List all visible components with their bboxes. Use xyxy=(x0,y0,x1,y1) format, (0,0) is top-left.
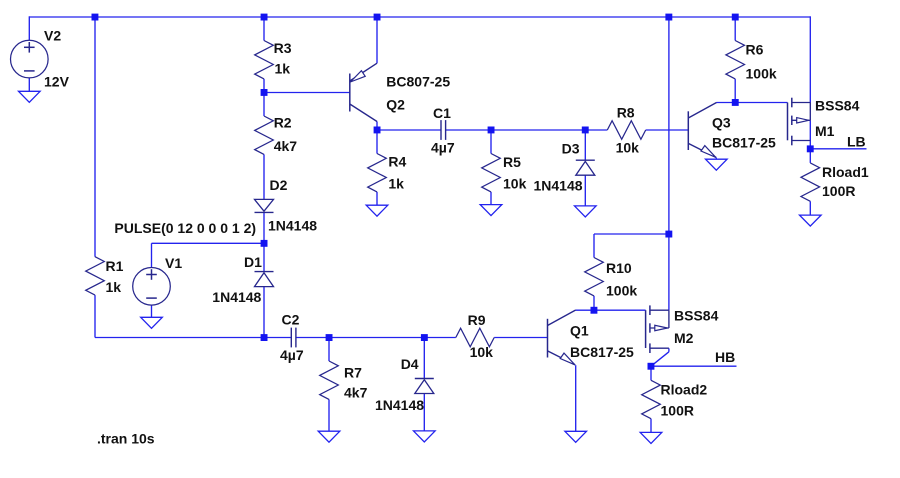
svg-text:4µ7: 4µ7 xyxy=(431,140,455,156)
svg-text:1k: 1k xyxy=(388,175,404,191)
svg-text:.tran 10s: .tran 10s xyxy=(97,431,155,447)
svg-text:D1: D1 xyxy=(244,254,262,270)
svg-text:4k7: 4k7 xyxy=(344,385,368,401)
svg-text:V1: V1 xyxy=(165,255,182,271)
svg-text:Rload1: Rload1 xyxy=(822,164,869,180)
svg-text:BSS84: BSS84 xyxy=(815,98,860,114)
svg-text:100k: 100k xyxy=(606,283,637,299)
svg-text:1N4148: 1N4148 xyxy=(534,178,583,194)
svg-text:R8: R8 xyxy=(617,105,635,121)
svg-text:12V: 12V xyxy=(44,74,70,90)
svg-text:1N4148: 1N4148 xyxy=(268,218,317,234)
svg-text:BC817-25: BC817-25 xyxy=(712,135,776,151)
svg-text:V2: V2 xyxy=(44,28,61,44)
svg-text:R5: R5 xyxy=(503,154,521,170)
svg-text:Q1: Q1 xyxy=(570,323,589,339)
svg-text:4µ7: 4µ7 xyxy=(280,347,304,363)
svg-text:1N4148: 1N4148 xyxy=(212,289,261,305)
svg-text:M1: M1 xyxy=(815,123,835,139)
svg-text:R10: R10 xyxy=(606,260,632,276)
svg-text:R6: R6 xyxy=(746,42,764,58)
svg-text:HB: HB xyxy=(715,349,735,365)
svg-text:R3: R3 xyxy=(274,40,292,56)
svg-text:BC807-25: BC807-25 xyxy=(386,74,450,90)
svg-text:Rload2: Rload2 xyxy=(661,382,708,398)
svg-text:BSS84: BSS84 xyxy=(674,308,719,324)
svg-text:Q2: Q2 xyxy=(386,97,405,113)
svg-text:100k: 100k xyxy=(746,66,777,82)
svg-text:1k: 1k xyxy=(106,279,122,295)
svg-text:1k: 1k xyxy=(275,61,291,77)
svg-text:C1: C1 xyxy=(433,105,451,121)
svg-text:R1: R1 xyxy=(106,258,124,274)
svg-text:R7: R7 xyxy=(344,365,362,381)
svg-text:R4: R4 xyxy=(388,154,406,170)
svg-text:C2: C2 xyxy=(282,312,300,328)
svg-text:LB: LB xyxy=(847,134,866,150)
svg-text:BC817-25: BC817-25 xyxy=(570,344,634,360)
svg-text:D4: D4 xyxy=(401,356,419,372)
svg-text:R2: R2 xyxy=(274,115,292,131)
svg-text:10k: 10k xyxy=(503,175,527,191)
svg-text:D2: D2 xyxy=(270,177,288,193)
svg-text:PULSE(0 12 0 0 0 1 2): PULSE(0 12 0 0 0 1 2) xyxy=(114,220,256,236)
svg-text:R9: R9 xyxy=(468,312,486,328)
svg-text:D3: D3 xyxy=(562,141,580,157)
svg-text:10k: 10k xyxy=(470,344,494,360)
svg-text:100R: 100R xyxy=(661,403,694,419)
svg-text:M2: M2 xyxy=(674,330,694,346)
svg-text:1N4148: 1N4148 xyxy=(375,397,424,413)
svg-text:10k: 10k xyxy=(616,140,640,156)
svg-text:100R: 100R xyxy=(822,183,855,199)
svg-text:Q3: Q3 xyxy=(712,115,731,131)
svg-text:4k7: 4k7 xyxy=(274,138,298,154)
